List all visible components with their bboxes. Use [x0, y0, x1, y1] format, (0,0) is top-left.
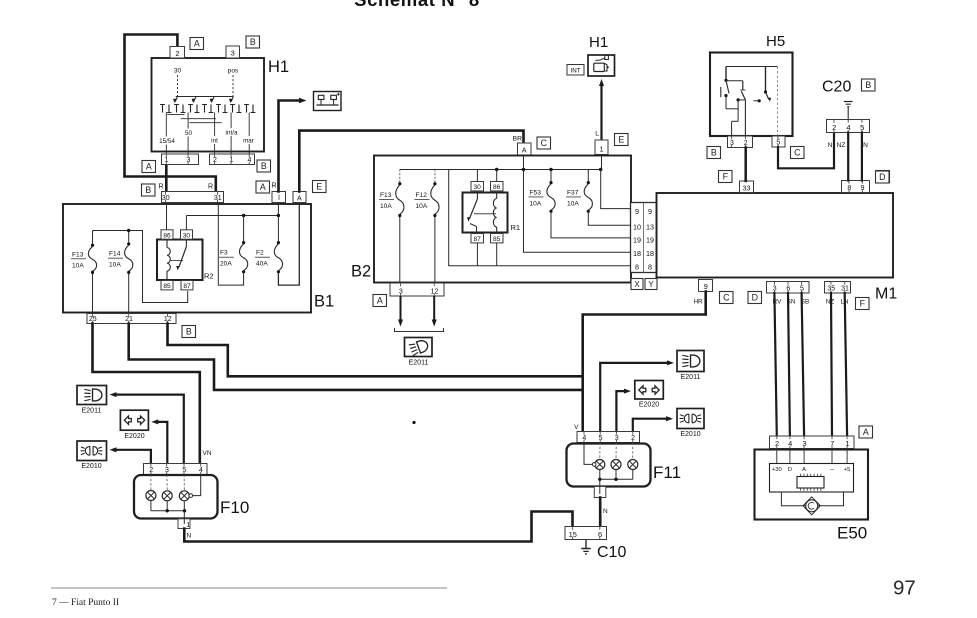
fuse F13 10A: [71, 231, 97, 314]
svg-text:9: 9: [704, 282, 708, 291]
wire B1 pin 25 to F10 pin 4: [93, 324, 200, 464]
wire labels N NZ N: [828, 142, 869, 149]
svg-text:F37: F37: [567, 189, 579, 196]
svg-text:87: 87: [474, 236, 482, 243]
svg-text:6: 6: [786, 286, 790, 293]
connector pins 2 1 4 of H1 bottom: [210, 154, 255, 165]
wire F2 to B1 pin A: [278, 203, 299, 286]
connector pins 4 5 3 2 of F11: [577, 432, 640, 443]
wire label N: [603, 508, 608, 515]
svg-text:A: A: [377, 296, 383, 306]
svg-text:87: 87: [183, 283, 191, 290]
relay R2: [157, 240, 203, 281]
wire label V: [574, 424, 579, 431]
lamp icon E2011 right: [677, 351, 704, 372]
wire H1 pin 1 to B1 pin 30: [165, 165, 168, 193]
svg-text:F10: F10: [220, 498, 249, 517]
svg-text:10A: 10A: [567, 200, 579, 207]
svg-text:E: E: [316, 182, 322, 192]
H5 title: [766, 33, 785, 50]
svg-text:E2011: E2011: [82, 408, 102, 415]
svg-text:int/a: int/a: [226, 130, 238, 137]
connector pin 1 of B2 top: [595, 140, 608, 155]
svg-text:5: 5: [800, 286, 804, 293]
svg-text:8: 8: [648, 263, 652, 272]
connector pin A of B2 top: [518, 143, 532, 155]
svg-text:5: 5: [599, 435, 603, 442]
H1 internal bridge links: [167, 113, 184, 115]
svg-text:H1: H1: [589, 34, 608, 51]
wire M1 pin 35 to E50 pin 7: [831, 293, 832, 436]
fuse F13 10A of B2: [379, 170, 404, 284]
wire label HR: [693, 299, 703, 306]
relay R1 pin 86: [491, 182, 504, 191]
svg-text:20A: 20A: [220, 261, 232, 268]
H1 terminal 30 label: [174, 68, 182, 75]
fuse box B2: [374, 156, 631, 283]
connector pin 1 of F10: [178, 511, 190, 529]
ignition key icon H1 top: [588, 55, 615, 76]
svg-text:Y: Y: [648, 280, 654, 289]
footer rule: [51, 587, 447, 589]
svg-text:N: N: [863, 142, 868, 149]
wire M1 pin 3 to E50 pin 2: [774, 293, 776, 436]
wire bus tap to pin 8 row: [449, 170, 631, 266]
bracket above E2011: [395, 328, 444, 332]
label A: [256, 181, 270, 193]
wire label R: [271, 183, 276, 190]
label C: [537, 137, 551, 149]
svg-text:86: 86: [163, 232, 171, 239]
wire bus to relay R1 pin 30: [476, 170, 478, 182]
svg-text:7 — Fiat Punto II: 7 — Fiat Punto II: [52, 598, 119, 608]
connector pin 9 of M1 bottom: [699, 280, 713, 292]
wire B1 pin 21 to F11 feed: [129, 324, 583, 390]
svg-text:3: 3: [773, 286, 777, 293]
B2 title: [351, 263, 371, 281]
svg-text:30: 30: [162, 195, 170, 202]
H1 title: [268, 58, 289, 76]
svg-text:E2011: E2011: [681, 374, 701, 381]
svg-text:19: 19: [633, 236, 641, 245]
H1 icon title: [589, 34, 608, 51]
label C: [791, 147, 805, 159]
H1 internal contact row: [160, 105, 255, 113]
wire C20 pin 5 to M1 pin 9: [861, 133, 863, 181]
connector pin 33 of M1: [740, 181, 754, 193]
wire M1 pin 5 to E50 pin 3: [802, 293, 805, 436]
svg-text:R2: R2: [204, 272, 214, 281]
svg-text:D: D: [879, 172, 885, 182]
svg-text:8: 8: [635, 263, 639, 272]
svg-text:A: A: [802, 467, 806, 473]
svg-text:mar: mar: [243, 138, 254, 145]
wire F10 pin 5 to E2011: [110, 392, 184, 463]
lamp unit F10: [134, 475, 218, 519]
svg-text:30: 30: [474, 184, 482, 191]
E2020 label: [124, 433, 144, 440]
svg-text:2: 2: [631, 435, 635, 442]
lamp icon E2010 left: [77, 441, 107, 461]
wire F10 pin 2 to E2010: [110, 447, 151, 463]
wire C20 pin 4 to M1 pin 8: [847, 133, 849, 181]
svg-text:F2: F2: [256, 250, 264, 257]
svg-text:30: 30: [183, 232, 191, 239]
connector pins 35 31 of M1 bottom: [825, 282, 851, 294]
wire fuse bus to relay R2 pin 87: [129, 231, 188, 303]
svg-text:4: 4: [788, 439, 792, 448]
svg-text:35: 35: [827, 286, 835, 293]
connector pin 5 of H5: [772, 136, 785, 147]
relay R1 pin 87: [471, 234, 484, 243]
wire relay 85 to pin 8 row: [496, 243, 498, 266]
svg-text:R: R: [208, 184, 213, 191]
svg-text:9: 9: [861, 185, 865, 192]
svg-text:3: 3: [186, 157, 190, 164]
svg-text:D: D: [752, 293, 758, 303]
svg-text:10A: 10A: [72, 262, 84, 269]
svg-text:N: N: [603, 508, 608, 515]
connector pin A of B1: [293, 192, 306, 203]
arrow to battery: [299, 98, 307, 103]
ground below C10: [581, 540, 590, 555]
wire H5 pin 5 to C20 pin 2: [778, 133, 834, 169]
svg-text:85: 85: [163, 283, 171, 290]
H1 terminal labels: [158, 128, 258, 145]
relay R1 pin 85: [491, 234, 504, 243]
svg-text:5: 5: [182, 467, 186, 474]
svg-text:3: 3: [231, 49, 235, 58]
relay R2 pin 85: [161, 281, 173, 290]
svg-text:25: 25: [89, 316, 97, 323]
svg-text:E50: E50: [837, 524, 867, 543]
connector pins 3 12 of B2 bottom: [390, 283, 444, 296]
B1 title: [314, 293, 334, 311]
label B: [257, 160, 271, 172]
svg-text:R: R: [158, 184, 163, 191]
connector pins 25 21 12 of B1 bottom: [87, 314, 176, 324]
svg-text:X: X: [634, 280, 640, 289]
label Y: [645, 279, 657, 290]
svg-text:40A: 40A: [256, 261, 268, 268]
wire B2 pin 3 arrow to E2011: [398, 296, 403, 327]
svg-text:4: 4: [248, 157, 252, 164]
svg-text:2: 2: [213, 157, 217, 164]
H5 internals: [721, 67, 778, 137]
control unit M1: [657, 193, 894, 278]
svg-text:2: 2: [744, 140, 748, 147]
E50 title: [837, 524, 867, 543]
lamp icon E2011 left: [77, 386, 107, 405]
F10 title: [220, 498, 249, 517]
svg-text:3: 3: [165, 467, 169, 474]
wire F10 pin 1 (N) to C10 pin 15: [184, 512, 572, 542]
wire B1 pin 30 to relay 86: [166, 203, 168, 230]
wire F13 top to F14 top: [93, 230, 129, 232]
B2 supply bus: [400, 168, 603, 171]
svg-text:7: 7: [830, 439, 834, 448]
svg-text:2: 2: [175, 49, 179, 58]
svg-text:10A: 10A: [380, 203, 392, 210]
svg-text:97: 97: [893, 577, 916, 600]
label D: [876, 171, 890, 183]
H1 terminal pos label: [228, 68, 239, 75]
svg-text:3: 3: [399, 289, 403, 296]
svg-text:BR: BR: [513, 136, 523, 143]
wire B1 pin 12 to F11 feed: [168, 324, 583, 377]
connector pins 1 3 of H1 bottom: [162, 154, 199, 165]
svg-text:15/54: 15/54: [159, 138, 175, 145]
svg-text:4: 4: [846, 123, 850, 132]
svg-text:5: 5: [776, 140, 780, 147]
wire labels RV SN SB: [773, 299, 810, 306]
svg-text:L: L: [595, 131, 599, 138]
lamp icon E2020 right: [635, 381, 664, 400]
svg-text:F12: F12: [416, 192, 428, 199]
connector X Y columns: [631, 203, 657, 273]
battery G1: [314, 92, 342, 111]
svg-text:E2010: E2010: [680, 431, 700, 438]
E2011 label: [681, 374, 701, 381]
svg-text:1: 1: [845, 439, 849, 448]
svg-text:B2: B2: [351, 263, 371, 281]
svg-text:13: 13: [646, 223, 654, 232]
svg-text:10A: 10A: [530, 200, 542, 207]
wire B2 pin A to pin 18 row: [524, 156, 632, 253]
svg-text:F3: F3: [220, 250, 228, 257]
svg-text:A: A: [863, 427, 869, 437]
connector pins 2 4 5 of C20: [827, 120, 870, 133]
svg-text:E2011: E2011: [409, 360, 429, 367]
fuse F53 10A: [529, 170, 556, 213]
connector pin of B1 to battery: [272, 192, 286, 203]
ground above C20: [844, 102, 853, 120]
fuse F14 10A: [108, 229, 133, 314]
C10 title: [597, 544, 626, 561]
svg-text:10: 10: [633, 223, 641, 232]
wire H1 top pin 2 loop to B1 pin 31: [125, 35, 216, 193]
F11 title: [653, 463, 681, 482]
connector pins 3 6 5 of M1 bottom: [767, 282, 810, 294]
label E: [615, 134, 629, 146]
E2011 label: [82, 408, 102, 415]
R2 reference label: [204, 272, 214, 281]
connector pin 2 of H1: [170, 47, 185, 59]
connector pin 3 of H1: [226, 46, 240, 58]
svg-text:31: 31: [841, 286, 849, 293]
svg-text:B: B: [250, 37, 256, 47]
svg-text:+30: +30: [772, 467, 782, 473]
svg-text:3: 3: [730, 140, 734, 147]
fuse F12 10A of B2: [415, 170, 440, 284]
svg-text:B: B: [261, 161, 267, 171]
label C: [720, 292, 734, 304]
page number: [893, 577, 916, 600]
E2020 label: [639, 402, 659, 409]
wire F11 pin 1 (N) to C10 pin 6: [599, 498, 602, 527]
svg-text:1: 1: [186, 522, 190, 529]
wire B2 pin 1 to pin 9 row: [601, 155, 603, 170]
svg-text:F: F: [860, 299, 866, 309]
svg-text:B: B: [865, 80, 871, 90]
wire B2 pin 1 to ignition icon H1: [599, 79, 604, 140]
wire F11 pin 2 to E2010: [633, 416, 673, 431]
svg-text:–: –: [830, 466, 834, 473]
svg-text:2: 2: [832, 123, 836, 132]
wire label R: [208, 184, 213, 191]
svg-text:3: 3: [802, 439, 806, 448]
lamp icon E2020 left: [120, 410, 148, 430]
svg-text:18: 18: [646, 249, 654, 258]
svg-text:E2020: E2020: [124, 433, 144, 440]
svg-text:33: 33: [743, 185, 751, 192]
svg-text:2: 2: [775, 439, 779, 448]
wire label R: [158, 184, 163, 191]
connector pin 1 of F11: [594, 479, 606, 497]
relay R2 pin 86: [161, 230, 173, 239]
svg-text:M1: M1: [875, 286, 897, 303]
svg-text:N: N: [187, 533, 192, 540]
label B: [182, 326, 196, 338]
connector pins 15 6 of C10: [565, 527, 607, 540]
svg-text:12: 12: [431, 289, 439, 296]
connector pins 30 31 of B1: [162, 192, 224, 203]
svg-text:C20: C20: [822, 79, 851, 96]
label F: [719, 171, 733, 183]
relay R2 pin 87: [181, 281, 193, 290]
svg-text:R: R: [271, 183, 276, 190]
wire label L: [595, 131, 599, 138]
relay R1 pin 30: [471, 182, 484, 191]
wire label BR: [513, 136, 523, 143]
wire F53 to pin 19 row: [551, 213, 631, 238]
label B: [246, 36, 260, 48]
svg-text:A: A: [146, 162, 152, 172]
svg-text:Schémat N° 8: Schémat N° 8: [354, 0, 480, 10]
svg-text:10A: 10A: [416, 203, 428, 210]
wire label N: [187, 533, 192, 540]
svg-text:8: 8: [847, 185, 851, 192]
ink speck: [412, 421, 415, 424]
wire F11 pin 5 to E2011: [600, 360, 674, 431]
svg-text:int: int: [211, 138, 218, 145]
H1 internal feed lines: [177, 75, 179, 97]
svg-text:A: A: [297, 195, 302, 202]
connector pins 2 3 5 4 of F10: [144, 464, 208, 475]
wire bus to relay R1 pin 86: [496, 170, 498, 182]
label B: [142, 184, 156, 196]
label D: [748, 292, 762, 304]
svg-text:V: V: [574, 424, 579, 431]
E2011 label: [409, 360, 429, 367]
svg-text:2: 2: [149, 467, 153, 474]
svg-text:VN: VN: [203, 450, 212, 457]
svg-text:H1: H1: [268, 58, 289, 76]
wire M1 pin 31 to E50 pin 1: [845, 293, 847, 436]
label A: [190, 38, 204, 50]
svg-text:4: 4: [582, 435, 586, 442]
lamp icon E2010 right: [677, 409, 704, 429]
fuse F37 10A: [566, 170, 592, 213]
svg-text:3: 3: [615, 435, 619, 442]
svg-text:B: B: [145, 185, 151, 195]
wire B1 to battery: [279, 101, 302, 192]
svg-text:4: 4: [199, 467, 203, 474]
M1 title: [875, 286, 897, 303]
svg-text:C10: C10: [597, 544, 626, 561]
svg-text:C: C: [794, 148, 801, 158]
wire relay 87 to pin 8 row: [476, 243, 478, 266]
E2010 label: [81, 463, 101, 470]
svg-text:D: D: [788, 467, 792, 473]
svg-text:pos: pos: [228, 68, 239, 75]
wire H5 pin 2 to M1 pin 33: [744, 148, 747, 182]
H1 internal output lines: [166, 113, 249, 155]
H1 internal contact branches: [173, 97, 233, 104]
svg-text:6: 6: [598, 530, 602, 539]
wire B2 pin 12 arrow to E2011: [432, 296, 437, 327]
svg-text:30: 30: [174, 68, 182, 75]
svg-text:1: 1: [600, 145, 604, 154]
svg-text:NZ: NZ: [837, 142, 846, 149]
svg-text:B: B: [711, 148, 717, 158]
svg-text:A: A: [194, 39, 200, 49]
svg-text:B1: B1: [314, 293, 334, 311]
svg-text:HR: HR: [693, 299, 703, 306]
label A: [859, 426, 873, 438]
E2010 label: [680, 431, 700, 438]
wire F10 pin 3 to E2020: [151, 419, 167, 463]
svg-text:+5: +5: [844, 467, 851, 473]
svg-text:INT: INT: [571, 68, 581, 75]
wire M1 pin 6 to E50 pin 4: [788, 293, 790, 436]
svg-text:85: 85: [493, 236, 501, 243]
title (clipped at top edge): [354, 0, 480, 10]
svg-text:F11: F11: [653, 463, 681, 482]
C20 title: [822, 79, 851, 96]
svg-text:N: N: [828, 142, 833, 149]
label B: [707, 147, 721, 159]
svg-text:31: 31: [214, 195, 222, 202]
wire F3 to B1 pin 31: [218, 203, 243, 286]
svg-text:5: 5: [860, 123, 864, 132]
connector pins 8 9 of M1 top: [842, 181, 870, 193]
svg-text:F: F: [723, 172, 729, 182]
label A: [142, 161, 156, 173]
lamp unit F11: [567, 443, 651, 487]
footer text: [52, 598, 119, 608]
svg-text:C: C: [541, 138, 548, 148]
svg-text:9: 9: [648, 207, 652, 216]
wire M1 pin 9 to F11 pin 4: [583, 292, 706, 432]
svg-text:1: 1: [229, 157, 233, 164]
svg-text:15: 15: [569, 530, 577, 539]
fuse box B1: [63, 204, 311, 313]
label A: [373, 295, 387, 307]
svg-text:H5: H5: [766, 33, 785, 50]
svg-text:50: 50: [185, 130, 193, 137]
wire F11 pin 3 to E2020: [616, 389, 631, 432]
switch H5 box: [710, 53, 793, 137]
svg-text:9: 9: [635, 207, 639, 216]
svg-text:E2020: E2020: [639, 402, 659, 409]
label D: [876, 171, 890, 183]
svg-text:19: 19: [646, 236, 654, 245]
svg-text:F13: F13: [72, 251, 84, 258]
label B: [862, 79, 876, 91]
svg-text:86: 86: [493, 184, 501, 191]
relay R2 pin 30: [181, 230, 193, 239]
